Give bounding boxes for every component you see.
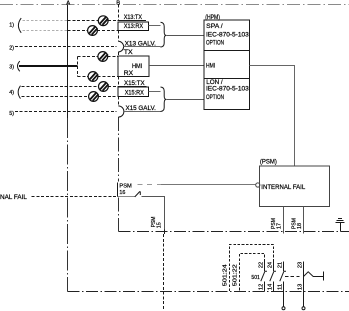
MPM divider 2 — [205, 78, 250, 80]
wire HMI box to MPM — [149, 65, 205, 67]
svg-text:14: 14 — [268, 283, 274, 290]
wire 23 common to terminal — [313, 276, 323, 278]
bracket row 3 — [18, 61, 20, 71]
wire X13 TX dashed — [68, 20, 99, 22]
svg-text:13: 13 — [297, 284, 303, 290]
bracket row 4 — [18, 86, 20, 99]
terminal lead 24 — [273, 262, 275, 271]
wire X13:RX to brace — [149, 25, 161, 27]
terminal lead 11 — [283, 281, 285, 306]
contact 23-13 blade caret — [304, 272, 314, 277]
svg-text:12: 12 — [259, 284, 265, 290]
wire X13 RX gray — [23, 30, 68, 32]
contact internal fail blade — [135, 191, 141, 197]
svg-text:5): 5) — [9, 111, 14, 117]
connector box X15:RX — [118, 87, 149, 97]
wire HMI RX dashed — [78, 76, 89, 78]
connector pin circle 13 — [302, 307, 305, 310]
boundary line A vertical chain — [67, 118, 69, 292]
fiber optic connector X15:TX — [99, 82, 109, 92]
inverting bubble internal fail — [256, 183, 260, 187]
svg-text:16: 16 — [119, 190, 125, 196]
boundary line B vertical chain lower — [118, 117, 120, 181]
wire PSM17 — [283, 207, 285, 234]
svg-text:NAL FAIL: NAL FAIL — [0, 194, 27, 201]
wire X15 RX dashed — [22, 96, 89, 98]
terminal lead 23 — [303, 262, 305, 277]
fiber optic connector X13:TX — [98, 16, 108, 26]
wire brace to SPA option — [166, 35, 204, 37]
wire HMI solid — [19, 65, 78, 67]
brace LON group — [161, 87, 167, 112]
wire X15:RX to brace — [149, 91, 161, 93]
svg-text:X15 GALV.: X15 GALV. — [126, 105, 157, 112]
bracket row 1 — [18, 18, 21, 33]
svg-text:1): 1) — [9, 23, 14, 29]
svg-text:TX: TX — [124, 49, 133, 56]
svg-text:17: 17 — [277, 223, 283, 229]
wire X15 GALV dashed — [15, 111, 117, 113]
svg-text:22: 22 — [259, 262, 265, 268]
svg-text:4): 4) — [9, 90, 14, 96]
wire X15 TX dashed — [22, 86, 99, 88]
relay 501:22 dashed link — [240, 254, 265, 292]
svg-text:IEC-870-5-103: IEC-870-5-103 — [206, 86, 249, 93]
svg-text:(PSM): (PSM) — [260, 159, 277, 166]
wire PSM15 continuation dashed — [163, 234, 165, 311]
wire MPM to PSM — [250, 66, 295, 167]
svg-text:PSM: PSM — [119, 183, 132, 189]
svg-text:RX: RX — [124, 70, 134, 77]
wire X13 GALV dashed — [15, 46, 117, 48]
terminal lead 13 — [303, 277, 305, 307]
svg-text:2): 2) — [9, 45, 14, 51]
ground symbol — [336, 219, 345, 232]
contact 24-14 blade — [270, 271, 276, 281]
connector box HMI — [118, 56, 149, 77]
wire X13 TX gray — [23, 20, 68, 22]
wire internal fail link dashed — [138, 184, 162, 186]
svg-text:SPA /: SPA / — [206, 23, 223, 30]
connector pin circle 11 — [282, 307, 285, 310]
wire internal fail link solid — [161, 184, 256, 186]
terminal tick PSM15 — [164, 230, 166, 235]
terminal lead 12 — [264, 281, 266, 291]
svg-text:501: 501 — [251, 275, 260, 281]
wire HMI split vertical dashed — [77, 57, 79, 77]
svg-text:OPTION: OPTION — [206, 94, 224, 101]
wire X13 RX dashed — [68, 30, 89, 32]
svg-text:3): 3) — [9, 65, 14, 71]
MPM divider 1 — [205, 50, 250, 52]
galvanic isolation arc X15 — [118, 106, 124, 117]
svg-text:HMI: HMI — [206, 63, 215, 70]
module MPM box — [204, 20, 250, 110]
relay 501:24 dashed link — [230, 245, 274, 292]
terminal chain line y232 from B corner — [119, 231, 349, 233]
fiber optic connector HMI TX — [98, 52, 108, 62]
svg-text:X13:RX: X13:RX — [124, 23, 144, 30]
section boundary chain line top — [0, 4, 349, 6]
boundary chain line lower horizontal — [68, 291, 349, 293]
contact 21-11 blade — [280, 271, 286, 281]
wire brace to LON option — [166, 99, 204, 101]
contact 22-12 blade — [261, 271, 267, 281]
wire PSM16 to contact — [118, 196, 135, 198]
galvanic isolation arc X13 — [118, 41, 123, 52]
fiber optic connector X13:RX — [88, 26, 98, 36]
terminal lead 21 — [283, 262, 285, 271]
svg-text:24: 24 — [268, 261, 274, 268]
svg-text:HMI: HMI — [132, 63, 142, 70]
svg-text:501:22: 501:22 — [233, 264, 239, 286]
brace SPA group — [161, 22, 167, 47]
boundary line A vertical solid — [67, 5, 69, 119]
svg-text:INTERNAL FAIL: INTERNAL FAIL — [261, 184, 305, 191]
svg-text:A: A — [66, 1, 70, 7]
fiber optic connector HMI RX — [88, 72, 98, 82]
svg-text:OPTION: OPTION — [206, 39, 224, 46]
svg-text:18: 18 — [297, 223, 303, 229]
boundary line B vertical dashed segments — [118, 5, 120, 21]
linkage 21 to 23 dashed — [285, 276, 300, 278]
terminal lead 22 — [264, 262, 266, 271]
svg-text:21: 21 — [278, 262, 284, 268]
terminal tick 23 — [323, 272, 325, 281]
svg-text:IEC-870-5-103: IEC-870-5-103 — [206, 31, 249, 38]
connector box X13:RX — [118, 22, 149, 31]
terminal lead 14 — [273, 281, 275, 291]
wire contact to PSM15 — [142, 197, 165, 232]
terminal tick PSM16 — [117, 183, 119, 197]
fiber optic connector X15:RX — [89, 92, 99, 102]
wire HMI TX dashed — [78, 56, 99, 58]
svg-text:501:24: 501:24 — [223, 263, 229, 286]
svg-text:11: 11 — [278, 284, 284, 290]
wire PSM18 — [303, 207, 305, 234]
wire external fail dashed — [32, 196, 117, 198]
module PSM box — [260, 166, 330, 207]
svg-text:X15:RX: X15:RX — [125, 89, 145, 96]
svg-text:15: 15 — [157, 222, 163, 228]
svg-text:23: 23 — [297, 262, 303, 268]
